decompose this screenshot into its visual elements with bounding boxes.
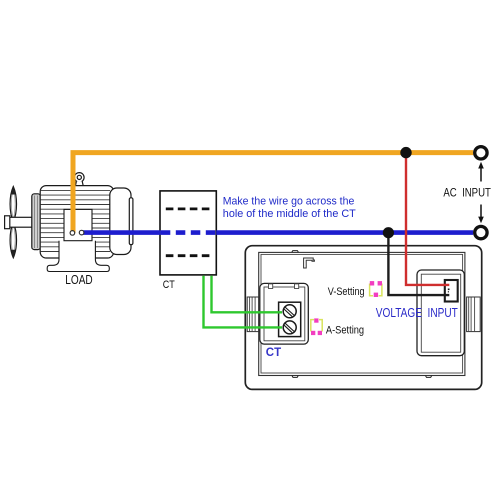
wire orange (line L) — [73, 153, 473, 233]
motor terminal pin 2 — [79, 230, 84, 235]
bottom notch left — [292, 376, 298, 378]
AC terminal N — [475, 226, 487, 238]
green wire CT secondary 1 — [212, 276, 283, 313]
eyelet — [75, 173, 85, 183]
motor fins — [40, 190, 110, 251]
CT primary dashed line lower — [166, 254, 211, 257]
motor end bell right — [47, 188, 133, 272]
connector J1 — [445, 280, 458, 302]
main body — [40, 186, 113, 258]
right side tab — [467, 297, 481, 332]
top notch — [292, 251, 299, 253]
wire blue (neutral) solid left — [82, 230, 161, 235]
svg-text:CT: CT — [266, 347, 281, 359]
fan blade bottom — [10, 223, 16, 258]
svg-text:hole of the middle of the CT: hole of the middle of the CT — [223, 208, 356, 220]
junction dot on orange — [400, 147, 411, 158]
fan blade top — [10, 187, 16, 222]
svg-text:A-Setting: A-Setting — [326, 325, 364, 337]
meter inner frame — [259, 252, 465, 375]
wire blue dashed through CT — [161, 230, 216, 235]
meter module case — [245, 246, 481, 390]
left cap — [32, 194, 41, 250]
CT primary dashed line upper — [166, 207, 211, 210]
motor base foot — [59, 241, 95, 265]
CT terminal block TB1 — [260, 283, 309, 344]
V-Setting indicator — [370, 281, 382, 297]
left side tab — [247, 297, 258, 332]
svg-text:LOAD: LOAD — [65, 272, 92, 287]
VOLTAGE INPUT block TB2 — [417, 270, 464, 356]
motor terminal pin 1 — [70, 231, 75, 236]
svg-text:CT: CT — [163, 279, 175, 291]
svg-text:AC INPUT: AC INPUT — [443, 186, 491, 200]
motor M1 (LOAD) — [5, 173, 114, 259]
screw terminal upper — [283, 305, 296, 318]
bottom notch right — [426, 376, 432, 378]
svg-text:V-Setting: V-Setting — [328, 286, 365, 298]
AC terminal L — [475, 147, 487, 159]
screw terminal lower — [283, 321, 296, 334]
wire blue solid right — [216, 230, 473, 235]
CT window box — [160, 191, 216, 275]
junction dot on blue — [383, 227, 394, 238]
svg-text:VOLTAGE INPUT: VOLTAGE INPUT — [376, 306, 458, 320]
wire red (voltage sense) — [406, 153, 449, 285]
arrow up to terminal L — [480, 167, 482, 182]
A-Setting indicator — [311, 318, 322, 335]
shaft — [8, 217, 32, 227]
motor terminal box — [64, 209, 92, 240]
screw box — [279, 302, 301, 336]
svg-text:Make the wire go across the: Make the wire go across the — [223, 195, 354, 207]
green wire CT secondary 2 — [204, 276, 283, 328]
arrow down to terminal N — [480, 205, 482, 218]
wire black (voltage sense) — [388, 233, 449, 295]
bracket mark — [304, 258, 315, 268]
